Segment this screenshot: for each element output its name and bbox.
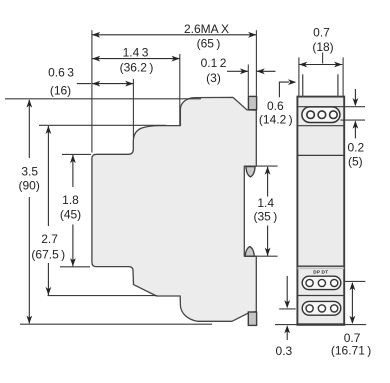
svg-text:(45): (45): [60, 208, 81, 222]
svg-text:(3): (3): [206, 71, 221, 85]
svg-text:(36.2 ): (36.2 ): [120, 61, 154, 75]
svg-text:0.3: 0.3: [276, 344, 293, 358]
svg-text:0.2: 0.2: [347, 141, 364, 155]
svg-text:1.4: 1.4: [257, 196, 274, 210]
svg-text:2.7: 2.7: [41, 232, 58, 246]
svg-text:(65 ): (65 ): [197, 37, 221, 51]
svg-text:(67.5 ): (67.5 ): [31, 248, 65, 262]
svg-text:DP DT: DP DT: [313, 270, 328, 275]
svg-text:0.7: 0.7: [313, 26, 330, 40]
svg-text:(16.71 ): (16.71 ): [331, 344, 371, 358]
svg-text:3.5: 3.5: [21, 165, 38, 179]
svg-text:(5): (5): [348, 155, 363, 169]
svg-text:2.6MA X: 2.6MA X: [184, 22, 229, 36]
svg-text:0.6 3: 0.6 3: [48, 66, 74, 80]
svg-text:1.8: 1.8: [62, 193, 79, 207]
svg-text:(16): (16): [50, 84, 71, 98]
svg-text:(90): (90): [19, 179, 40, 193]
svg-text:(35 ): (35 ): [254, 210, 278, 224]
svg-text:(18): (18): [312, 40, 333, 54]
svg-text:1.4 3: 1.4 3: [123, 46, 149, 60]
svg-text:(14.2 ): (14.2 ): [259, 113, 293, 127]
svg-text:0.6: 0.6: [267, 99, 284, 113]
svg-text:0.1 2: 0.1 2: [201, 56, 227, 70]
